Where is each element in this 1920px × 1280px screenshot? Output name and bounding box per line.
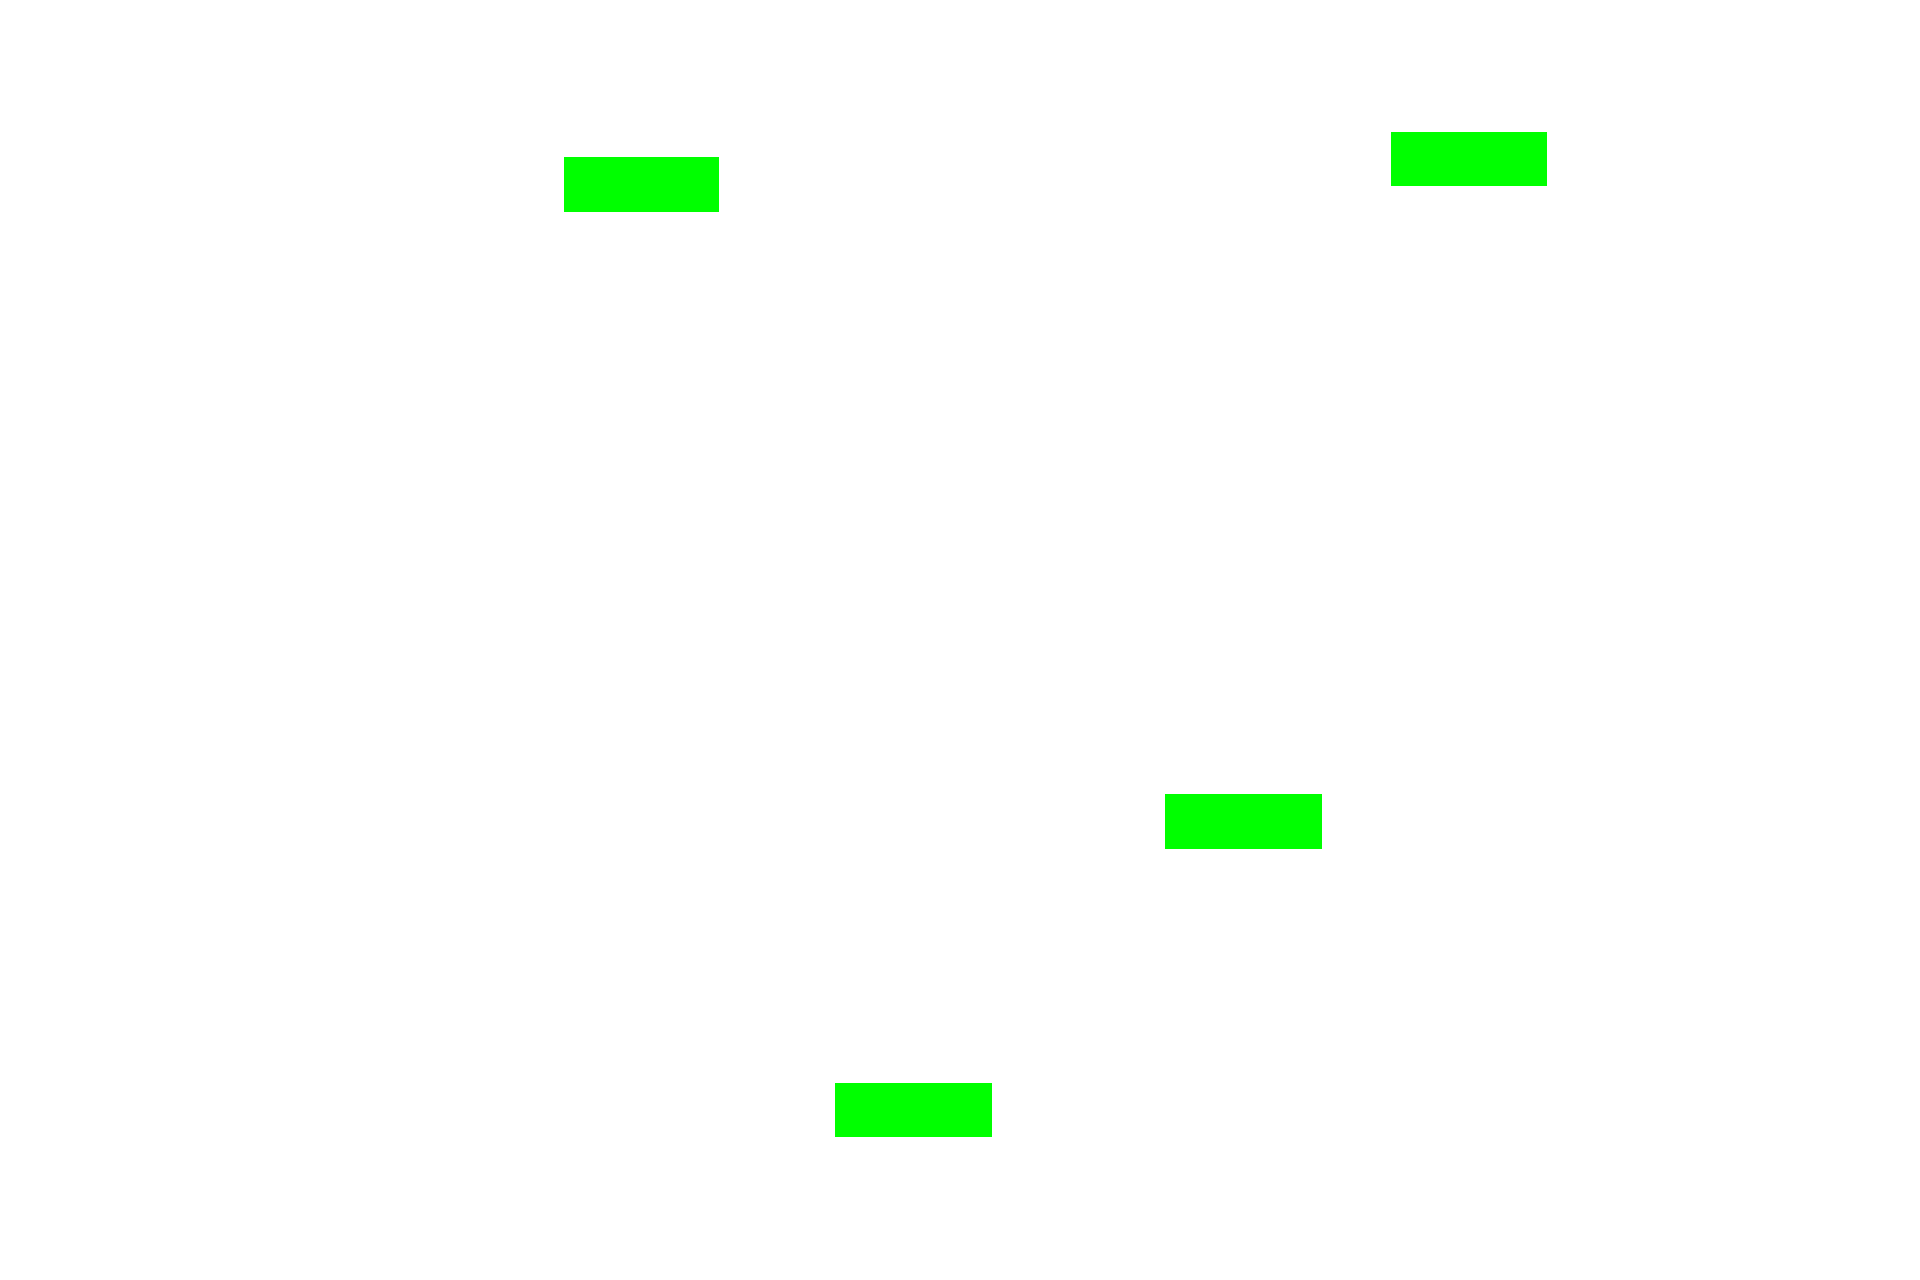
- highlight box 1 (top-left area): [564, 157, 719, 212]
- highlight box 4 (bottom-center area): [835, 1083, 992, 1137]
- highlight box 3 (middle-right area): [1165, 794, 1322, 849]
- highlight box 2 (top-right area): [1391, 132, 1547, 186]
